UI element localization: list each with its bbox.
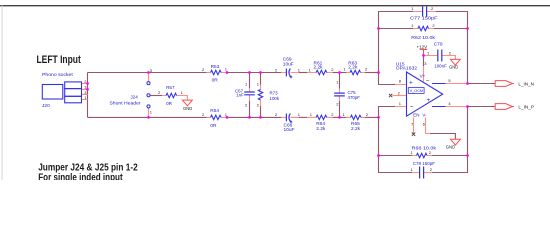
svg-text:L_IN_P: L_IN_P xyxy=(518,105,534,110)
svg-text:1nF: 1nF xyxy=(236,92,244,97)
svg-text:R64: R64 xyxy=(316,121,325,127)
svg-text:0R: 0R xyxy=(166,101,173,106)
svg-text:2.2k: 2.2k xyxy=(348,65,358,71)
svg-text:−: − xyxy=(426,78,430,85)
svg-text:V+: V+ xyxy=(420,74,426,79)
svg-text:C78 150pF: C78 150pF xyxy=(413,161,435,167)
svg-text:10uF: 10uF xyxy=(283,61,294,67)
svg-text:100k: 100k xyxy=(270,96,280,101)
svg-text:+12V: +12V xyxy=(417,45,428,50)
svg-text:GND: GND xyxy=(183,106,192,111)
svg-text:V-: V- xyxy=(422,113,427,118)
svg-text:C77 150pF: C77 150pF xyxy=(410,15,438,21)
svg-text:OPA1632: OPA1632 xyxy=(396,66,418,72)
svg-text:R54: R54 xyxy=(210,108,219,114)
svg-text:0R: 0R xyxy=(212,78,219,84)
svg-text:2.2k: 2.2k xyxy=(316,126,326,132)
svg-text:−: − xyxy=(410,104,414,111)
svg-text:C79: C79 xyxy=(434,41,443,47)
svg-text:0R: 0R xyxy=(210,123,217,129)
svg-text:470pF: 470pF xyxy=(348,95,361,100)
svg-text:Shunt Header: Shunt Header xyxy=(109,100,141,105)
svg-text:GND: GND xyxy=(446,145,455,150)
svg-text:R57: R57 xyxy=(166,85,175,90)
svg-text:J24: J24 xyxy=(130,94,138,99)
svg-text:R62 10.0k: R62 10.0k xyxy=(411,35,435,41)
svg-text:J20: J20 xyxy=(42,103,50,109)
svg-text:V_OCM: V_OCM xyxy=(410,89,424,93)
svg-text:100nF: 100nF xyxy=(434,63,447,68)
svg-text:2.2k: 2.2k xyxy=(351,126,361,132)
svg-text:R66 10.0k: R66 10.0k xyxy=(412,145,437,151)
svg-text:Phono socket: Phono socket xyxy=(42,72,73,78)
svg-text:+: + xyxy=(409,80,413,87)
svg-text:+: + xyxy=(427,97,431,104)
svg-text:GND: GND xyxy=(449,65,458,70)
svg-text:2.2k: 2.2k xyxy=(314,65,324,71)
svg-text:EN: EN xyxy=(413,113,419,118)
svg-text:R65: R65 xyxy=(351,121,360,127)
svg-text:L_IN_N: L_IN_N xyxy=(518,82,534,87)
svg-text:LEFT Input: LEFT Input xyxy=(37,54,82,66)
svg-text:For single inded input: For single inded input xyxy=(38,173,123,180)
svg-text:10uF: 10uF xyxy=(284,127,295,133)
svg-text:R73: R73 xyxy=(270,90,279,95)
svg-text:R53: R53 xyxy=(211,64,220,70)
